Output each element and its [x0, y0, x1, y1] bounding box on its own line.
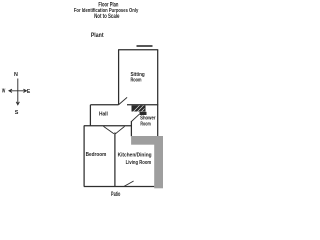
svg-text:Room: Room: [140, 121, 150, 127]
hall left wall: [89, 105, 91, 126]
sitting room top wall: [118, 49, 158, 51]
svg-text:Hall: Hall: [99, 111, 108, 117]
kitchen door swing right: [115, 126, 124, 134]
svg-text:For Identification Purposes On: For Identification Purposes Only: [74, 8, 139, 14]
sitting room door swing: [119, 97, 127, 104]
compass horizontal line with west and east arrowheads: [9, 89, 26, 92]
window bar above sitting room top wall: [137, 45, 153, 47]
svg-text:S: S: [15, 110, 19, 116]
shower room top wall: [127, 104, 158, 106]
bottom wall: [84, 186, 154, 188]
gray worktop vertical bar: [154, 136, 163, 188]
hall top wall: [90, 104, 118, 106]
bedroom left wall: [83, 126, 85, 187]
svg-text:Kitchen/Dining: Kitchen/Dining: [118, 153, 152, 159]
compass vertical line with south arrowhead: [16, 79, 19, 105]
svg-text:Not to Scale: Not to Scale: [94, 14, 120, 20]
shower room door swing: [131, 114, 139, 121]
svg-text:Shower: Shower: [140, 115, 156, 121]
small fixture square right of hatch: [140, 112, 147, 115]
shower room left wall: [130, 121, 132, 136]
svg-text:N: N: [14, 72, 18, 78]
svg-text:Patio: Patio: [111, 192, 121, 197]
divider wall bedroom/kitchen: [114, 133, 116, 187]
bedroom door swing left: [103, 126, 114, 134]
hatched storage block: [132, 105, 146, 111]
svg-text:Plant: Plant: [91, 33, 104, 39]
svg-text:W: W: [2, 88, 6, 94]
patio door swing: [124, 181, 134, 186]
svg-text:Living Room: Living Room: [126, 160, 152, 166]
svg-text:Room: Room: [130, 78, 141, 84]
bedroom top wall: [84, 125, 132, 127]
building right wall: [157, 50, 159, 137]
sitting room left wall: [118, 50, 120, 105]
gray worktop horizontal bar: [131, 136, 163, 145]
svg-text:Bedroom: Bedroom: [86, 152, 107, 158]
